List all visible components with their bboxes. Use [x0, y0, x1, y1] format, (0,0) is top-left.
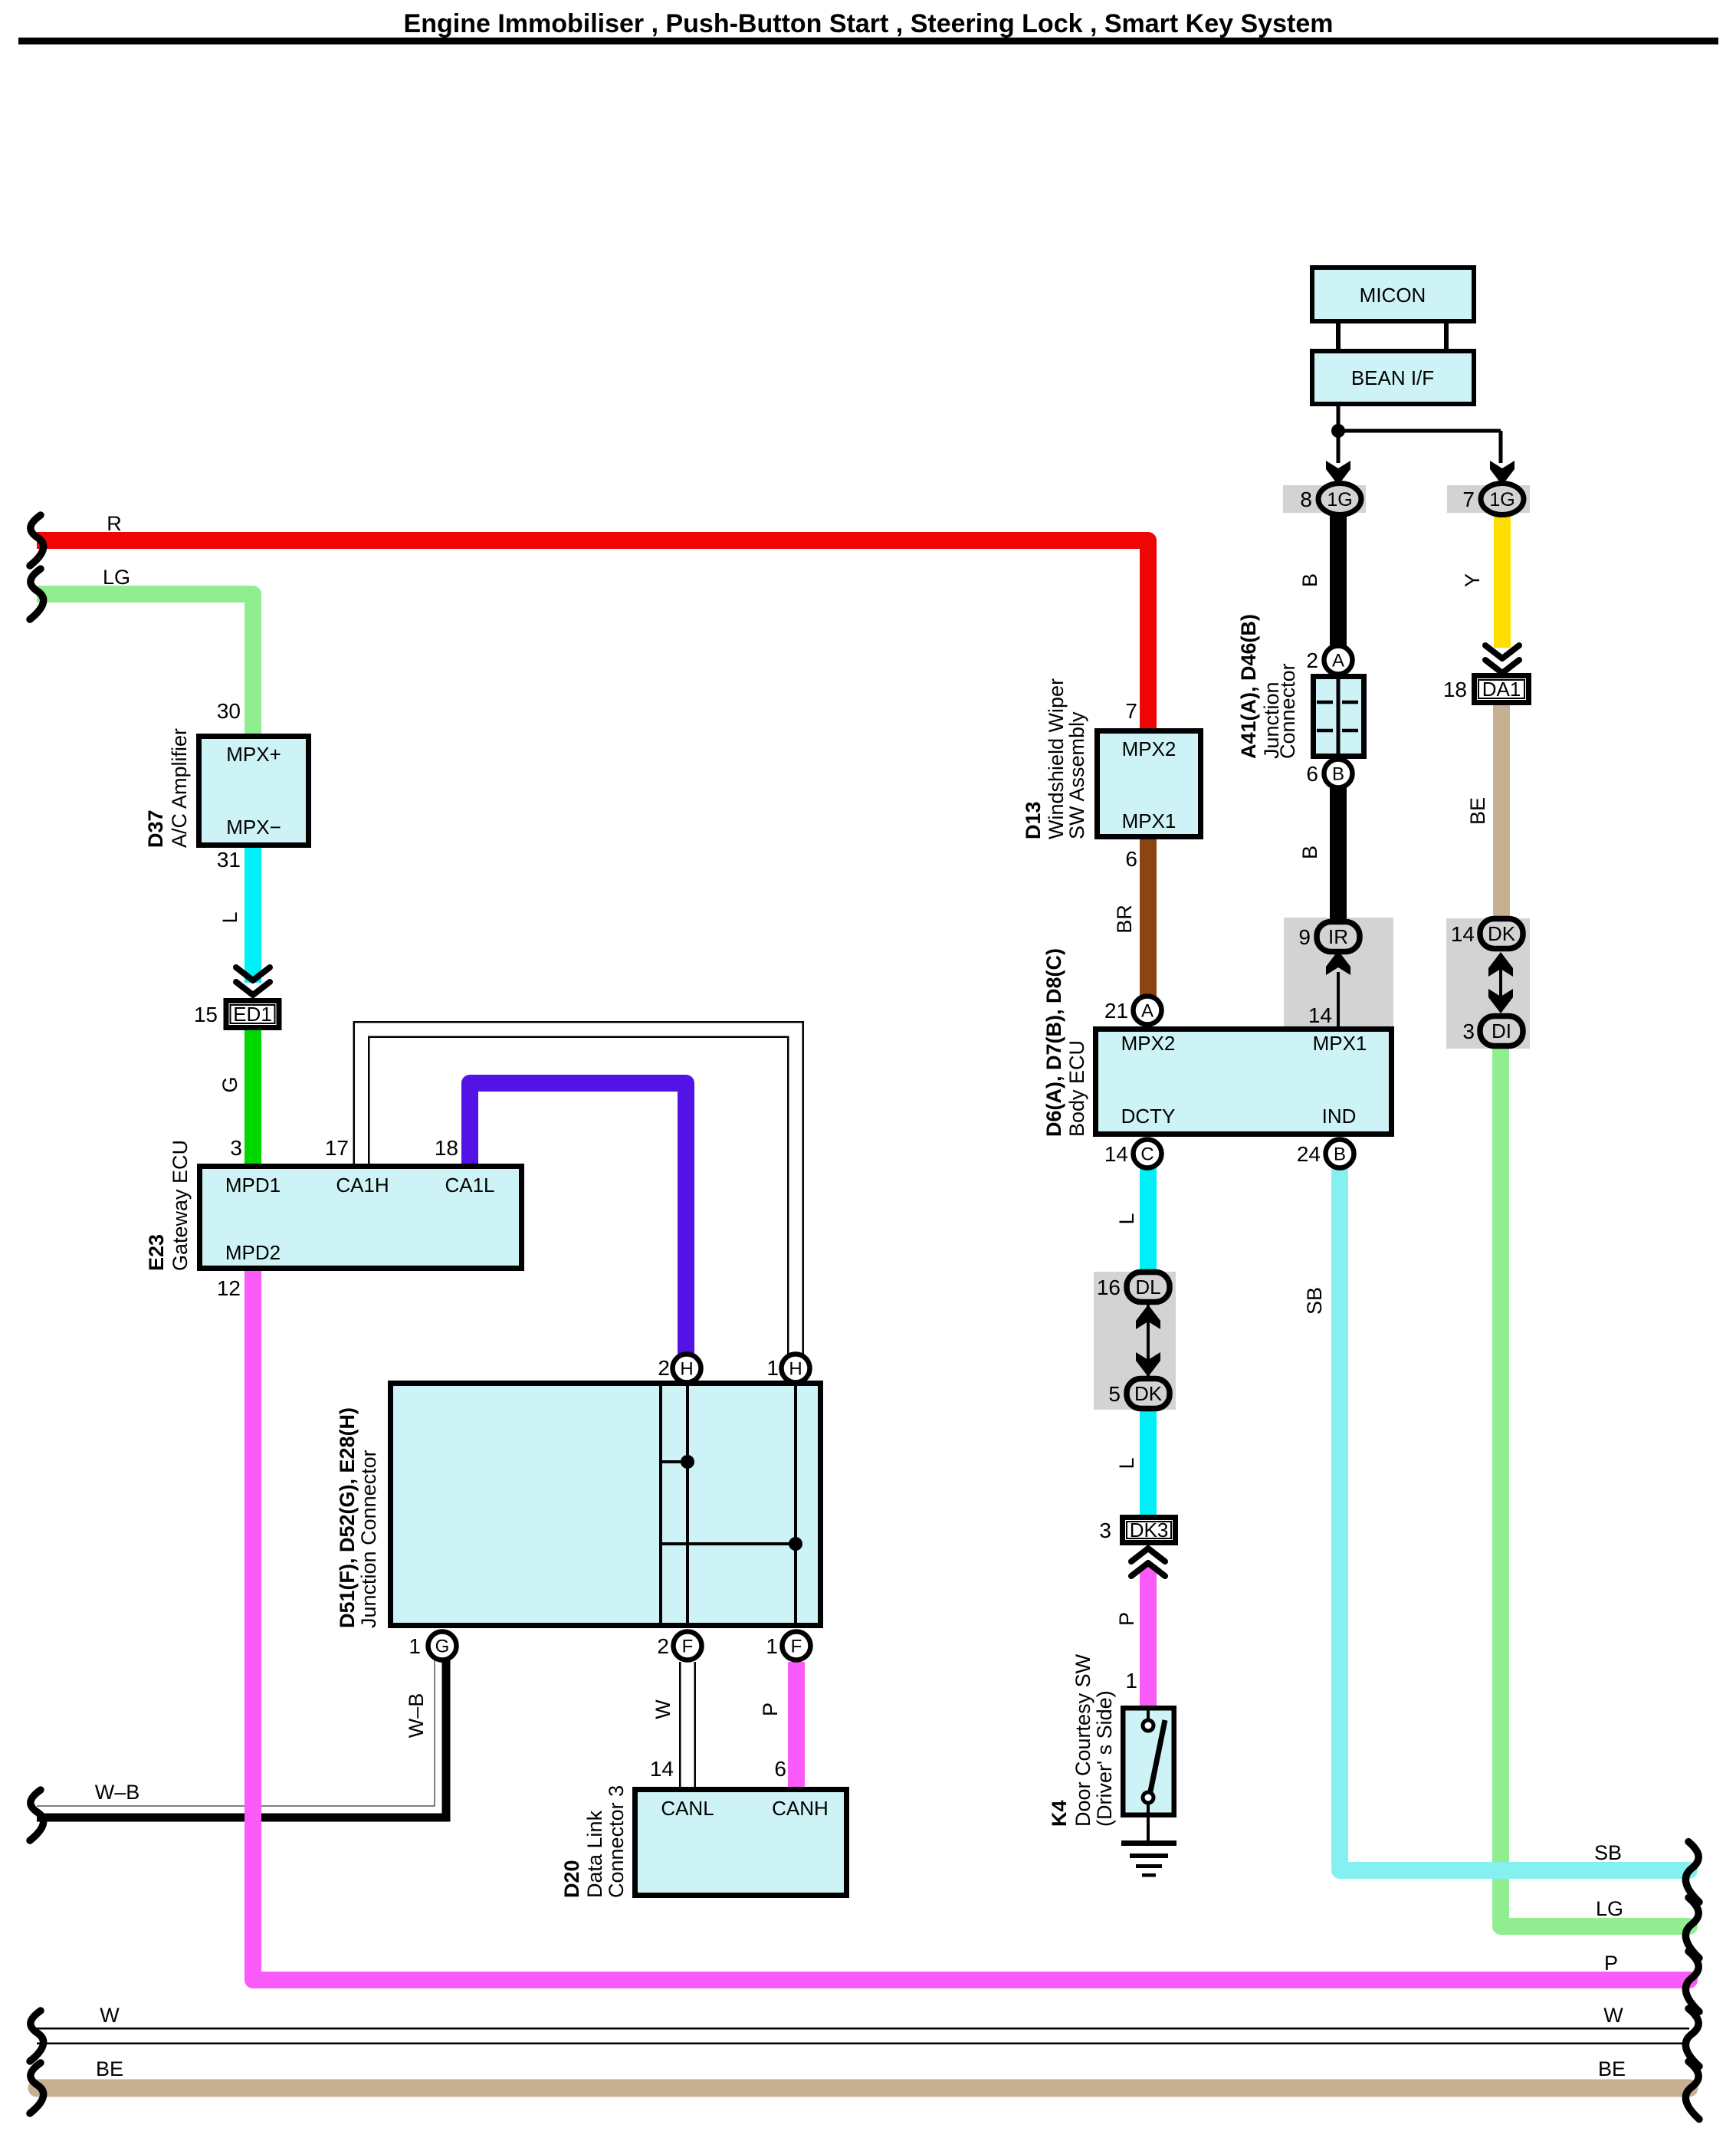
- svg-text:BE: BE: [1466, 797, 1489, 825]
- svg-text:F: F: [682, 1637, 694, 1657]
- svg-text:DK: DK: [1134, 1382, 1163, 1405]
- svg-text:SW Assembly: SW Assembly: [1065, 711, 1088, 839]
- svg-text:18: 18: [1443, 678, 1467, 701]
- svg-text:3: 3: [230, 1136, 242, 1160]
- svg-text:W: W: [1603, 2004, 1623, 2027]
- svg-text:G: G: [218, 1076, 241, 1092]
- svg-text:C: C: [1140, 1144, 1154, 1165]
- svg-text:BR: BR: [1113, 905, 1136, 934]
- svg-text:24: 24: [1297, 1142, 1321, 1166]
- svg-text:Connector: Connector: [1276, 663, 1299, 759]
- svg-text:6: 6: [1125, 847, 1137, 871]
- svg-text:W: W: [100, 2004, 120, 2027]
- svg-text:A/C Amplifier: A/C Amplifier: [168, 728, 191, 848]
- svg-text:F: F: [791, 1637, 802, 1657]
- svg-text:1G: 1G: [1327, 489, 1352, 511]
- svg-text:MPX−: MPX−: [226, 816, 281, 839]
- svg-text:7: 7: [1462, 488, 1475, 511]
- svg-text:BE: BE: [1598, 2057, 1626, 2080]
- svg-text:P: P: [1604, 1952, 1618, 1975]
- svg-text:D13: D13: [1022, 801, 1045, 839]
- svg-text:MPX1: MPX1: [1122, 809, 1176, 832]
- svg-text:18: 18: [435, 1136, 458, 1160]
- svg-text:15: 15: [194, 1003, 218, 1026]
- svg-text:H: H: [789, 1359, 802, 1380]
- svg-text:P: P: [1115, 1612, 1138, 1626]
- svg-text:1: 1: [1125, 1669, 1137, 1693]
- svg-text:W–B: W–B: [405, 1693, 428, 1739]
- svg-text:IND: IND: [1322, 1105, 1357, 1128]
- svg-text:A: A: [1141, 1001, 1154, 1022]
- svg-text:D37: D37: [144, 809, 167, 848]
- svg-text:14: 14: [1308, 1003, 1332, 1027]
- svg-text:W–B: W–B: [95, 1781, 140, 1804]
- svg-text:3: 3: [1462, 1020, 1475, 1043]
- svg-text:G: G: [435, 1637, 450, 1657]
- svg-text:B: B: [1298, 573, 1321, 587]
- svg-text:DI: DI: [1492, 1020, 1511, 1043]
- svg-text:9: 9: [1298, 925, 1311, 949]
- svg-text:Body ECU: Body ECU: [1065, 1040, 1088, 1137]
- svg-text:1: 1: [766, 1634, 778, 1658]
- svg-text:D20: D20: [560, 1860, 583, 1898]
- svg-text:Door Courtesy SW: Door Courtesy SW: [1071, 1653, 1094, 1827]
- svg-text:2: 2: [657, 1634, 669, 1658]
- svg-text:1G: 1G: [1489, 489, 1514, 511]
- svg-text:BEAN I/F: BEAN I/F: [1351, 366, 1434, 389]
- svg-text:5: 5: [1108, 1382, 1121, 1406]
- svg-text:17: 17: [325, 1136, 349, 1160]
- svg-text:Engine Immobiliser , Push-Butt: Engine Immobiliser , Push-Button Start ,…: [404, 9, 1334, 38]
- svg-text:21: 21: [1104, 999, 1128, 1023]
- svg-text:D51(F), D52(G), E28(H): D51(F), D52(G), E28(H): [336, 1407, 359, 1628]
- svg-text:L: L: [218, 911, 241, 923]
- svg-text:14: 14: [650, 1757, 674, 1781]
- svg-text:DK: DK: [1488, 922, 1516, 945]
- svg-text:31: 31: [217, 848, 241, 872]
- svg-text:Data Link: Data Link: [583, 1810, 606, 1898]
- svg-text:L: L: [1115, 1213, 1138, 1224]
- svg-text:6: 6: [1306, 762, 1318, 786]
- svg-text:LG: LG: [1596, 1897, 1623, 1920]
- svg-text:Windshield Wiper: Windshield Wiper: [1045, 678, 1068, 839]
- svg-text:MPD2: MPD2: [225, 1241, 281, 1264]
- svg-text:CA1L: CA1L: [445, 1174, 494, 1197]
- svg-text:D6(A), D7(B), D8(C): D6(A), D7(B), D8(C): [1042, 948, 1065, 1137]
- svg-text:Y: Y: [1461, 573, 1484, 587]
- svg-text:16: 16: [1097, 1276, 1121, 1299]
- svg-text:MPX2: MPX2: [1121, 1032, 1176, 1055]
- svg-text:MICON: MICON: [1360, 284, 1426, 307]
- svg-text:MPX2: MPX2: [1122, 737, 1176, 760]
- svg-text:DA1: DA1: [1482, 678, 1521, 701]
- svg-text:MPX1: MPX1: [1313, 1032, 1367, 1055]
- svg-text:ED1: ED1: [233, 1003, 272, 1026]
- svg-text:H: H: [680, 1359, 693, 1380]
- svg-text:SB: SB: [1594, 1841, 1622, 1864]
- svg-text:B: B: [1334, 1144, 1346, 1165]
- svg-text:MPX+: MPX+: [226, 743, 281, 766]
- svg-text:30: 30: [217, 699, 241, 723]
- svg-text:2: 2: [658, 1356, 670, 1380]
- svg-text:BE: BE: [96, 2057, 123, 2080]
- svg-text:14: 14: [1104, 1142, 1128, 1166]
- svg-text:Connector 3: Connector 3: [605, 1785, 628, 1898]
- svg-text:IR: IR: [1328, 925, 1348, 948]
- svg-text:K4: K4: [1048, 1800, 1071, 1827]
- svg-text:B: B: [1298, 846, 1321, 859]
- svg-text:Gateway ECU: Gateway ECU: [169, 1140, 192, 1271]
- svg-text:CANL: CANL: [661, 1797, 714, 1820]
- svg-text:DL: DL: [1135, 1276, 1160, 1299]
- svg-text:CA1H: CA1H: [336, 1174, 389, 1197]
- svg-text:DK3: DK3: [1130, 1519, 1169, 1542]
- svg-text:E23: E23: [145, 1234, 168, 1271]
- svg-text:3: 3: [1099, 1519, 1111, 1542]
- svg-text:B: B: [1332, 764, 1344, 785]
- svg-text:1: 1: [409, 1634, 421, 1658]
- svg-text:CANH: CANH: [772, 1797, 829, 1820]
- svg-text:MPD1: MPD1: [225, 1174, 281, 1197]
- svg-text:P: P: [759, 1703, 782, 1716]
- svg-text:7: 7: [1125, 699, 1137, 723]
- svg-text:LG: LG: [103, 566, 130, 589]
- svg-text:8: 8: [1300, 488, 1312, 511]
- svg-text:DCTY: DCTY: [1121, 1105, 1176, 1128]
- svg-text:1: 1: [766, 1356, 779, 1380]
- svg-text:(Driver' s Side): (Driver' s Side): [1093, 1690, 1116, 1827]
- svg-text:W: W: [651, 1699, 674, 1719]
- svg-text:R: R: [107, 512, 122, 535]
- svg-text:L: L: [1115, 1457, 1138, 1469]
- svg-text:Junction Connector: Junction Connector: [357, 1450, 380, 1628]
- svg-text:12: 12: [217, 1276, 241, 1300]
- svg-text:14: 14: [1451, 922, 1475, 946]
- svg-text:6: 6: [774, 1757, 786, 1781]
- svg-text:SB: SB: [1303, 1287, 1326, 1315]
- svg-text:A41(A), D46(B): A41(A), D46(B): [1237, 614, 1260, 759]
- svg-text:2: 2: [1306, 648, 1318, 672]
- svg-text:A: A: [1332, 651, 1344, 671]
